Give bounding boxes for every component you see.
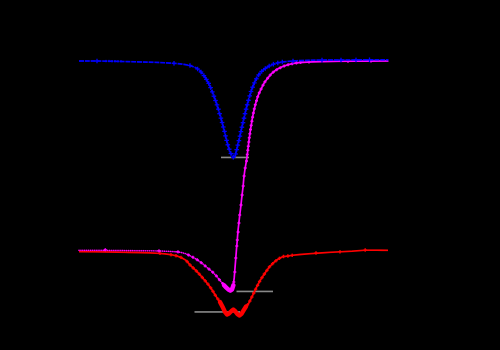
magenta curve square markers (104, 60, 373, 291)
blue curve plus markers (95, 58, 372, 160)
blue dashed curve (narrow deep dip, top) (79, 60, 389, 158)
magenta curve lower flat and dip (dotted texture) (79, 250, 232, 289)
red W-bottom thick overlay (220, 302, 246, 316)
gray reference line at red dip minimum (195, 311, 241, 313)
magenta dip-minimum thick overlay (224, 285, 233, 290)
red curve plus markers (158, 248, 367, 317)
gray reference line at blue dip minimum (221, 156, 249, 158)
red solid curve (broad shallow dip, bottom) (79, 250, 388, 315)
magenta curve steep rise and upper flat (solid) (232, 61, 389, 289)
gray reference line at magenta dip minimum (237, 290, 274, 292)
